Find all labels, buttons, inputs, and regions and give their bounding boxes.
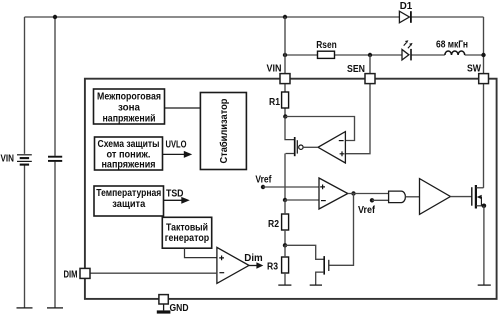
inductor L1 68uH bbox=[445, 51, 465, 55]
transistor Q1 sense PMOS bbox=[285, 117, 303, 201]
error amplifier U2 bbox=[319, 178, 348, 209]
wire R3 bottom to ground bbox=[284, 245, 286, 285]
svg-text:R3: R3 bbox=[267, 262, 278, 273]
arrow UVLO bbox=[163, 151, 193, 158]
pin SEN bbox=[365, 74, 375, 84]
block B UVLO protection bbox=[95, 137, 163, 170]
svg-text:Rsen: Rsen bbox=[316, 40, 337, 51]
svg-text:Стабилизатор: Стабилизатор bbox=[218, 99, 230, 164]
wire R2 to R3 bbox=[284, 200, 286, 245]
wire comparator output bbox=[249, 265, 257, 267]
node Q2 source bbox=[482, 204, 487, 209]
node divider mid bbox=[283, 198, 287, 202]
svg-text:Температурная: Температурная bbox=[96, 188, 161, 199]
svg-text:TSD: TSD bbox=[166, 188, 184, 199]
LED bbox=[402, 40, 413, 60]
svg-text:GND: GND bbox=[170, 303, 189, 314]
wire SW drop bbox=[483, 84, 485, 188]
wire input capacitor branch bbox=[54, 17, 56, 308]
transistor Q2 output NMOS bbox=[472, 185, 484, 209]
wire Rsen row bbox=[285, 54, 484, 56]
wire AND to buffer bbox=[405, 196, 419, 198]
svg-text:Dim: Dim bbox=[244, 253, 262, 264]
block D thermal protection bbox=[94, 186, 164, 216]
resistor R1 bbox=[282, 92, 289, 108]
wire error amp output down to Q3 gate bbox=[329, 194, 353, 266]
svg-text:защита: защита bbox=[112, 199, 145, 210]
svg-text:68 мкГн: 68 мкГн bbox=[436, 40, 468, 51]
wire Q2 source to ground bbox=[483, 206, 485, 285]
wire right drop from D1 to inductor row bbox=[483, 17, 485, 74]
ground bar battery bbox=[17, 307, 33, 309]
wire VIN rail bbox=[284, 17, 286, 117]
svg-text:D1: D1 bbox=[400, 1, 413, 12]
diode D1 bbox=[399, 11, 411, 23]
svg-text:UVLO: UVLO bbox=[166, 139, 187, 150]
wire R2R3 node to Q3 bbox=[285, 245, 324, 259]
svg-text:VIN: VIN bbox=[1, 154, 15, 165]
ground tick Q3 bbox=[310, 284, 322, 286]
node SEN junction bbox=[368, 53, 372, 57]
pin GND bbox=[159, 295, 168, 304]
node SW row right bbox=[481, 53, 485, 57]
wire top rail bbox=[25, 16, 484, 18]
resistor R2 bbox=[282, 214, 289, 230]
wire Vref to error amp plus bbox=[263, 186, 319, 188]
ground bar capacitor bbox=[47, 307, 63, 309]
block C stabilizer bbox=[200, 93, 246, 170]
wire clock to comparator bbox=[185, 248, 217, 257]
capacitor C1 bbox=[48, 157, 62, 161]
wire buffer to gate bbox=[450, 196, 471, 198]
svg-text:Межпороговая: Межпороговая bbox=[97, 92, 161, 103]
svg-text:SEN: SEN bbox=[347, 64, 365, 75]
ground bar GND bbox=[157, 310, 171, 313]
op-amp U1 current sense bbox=[303, 132, 345, 163]
node top VIN rail junction bbox=[283, 15, 287, 19]
wire Vref to AND input bbox=[372, 199, 389, 201]
arrow Dim bbox=[256, 262, 263, 269]
svg-text:зона: зона bbox=[118, 103, 140, 114]
buffer driver bbox=[420, 179, 451, 215]
block A Mezhporogovaya zona napryazheniy bbox=[94, 89, 165, 124]
block E clock generator bbox=[162, 217, 211, 248]
resistor R3 bbox=[282, 257, 289, 273]
AND gate bbox=[389, 191, 406, 203]
node error amp output bbox=[351, 191, 355, 195]
node R1 bottom bbox=[283, 114, 287, 118]
node R2 R3 junction bbox=[283, 243, 287, 247]
ground tick Q2 bbox=[478, 284, 491, 286]
svg-text:DIM: DIM bbox=[64, 270, 78, 281]
svg-text:Vref: Vref bbox=[255, 175, 272, 186]
node Rsen row left bbox=[283, 53, 287, 57]
node top capacitor junction bbox=[53, 15, 57, 19]
ground tick R3 bbox=[278, 284, 291, 286]
arrow TSD bbox=[164, 197, 190, 204]
wire divider to error amp minus bbox=[285, 199, 319, 201]
svg-text:R1: R1 bbox=[269, 97, 280, 108]
svg-text:Vref: Vref bbox=[358, 205, 376, 216]
transistor Q3 small NMOS bbox=[316, 256, 329, 285]
IC outline box bbox=[85, 79, 497, 299]
svg-text:напряжения: напряжения bbox=[102, 159, 156, 170]
resistor Rsen bbox=[318, 51, 335, 58]
svg-text:R2: R2 bbox=[268, 219, 279, 230]
pin SW bbox=[479, 74, 489, 84]
comparator U3 dim bbox=[217, 247, 249, 283]
node Vref left bbox=[261, 185, 265, 189]
pin VIN bbox=[280, 74, 290, 84]
svg-text:напряжений: напряжений bbox=[103, 114, 156, 125]
svg-text:генератор: генератор bbox=[165, 233, 210, 244]
wire feedback R1 to opamp minus bbox=[285, 117, 354, 141]
wire SEN drop bbox=[345, 55, 370, 154]
pin DIM bbox=[80, 268, 90, 278]
svg-text:SW: SW bbox=[467, 64, 481, 75]
wire error amp output to AND bbox=[348, 193, 389, 195]
svg-text:VIN: VIN bbox=[267, 64, 282, 75]
wire VIN source branch bbox=[24, 17, 26, 308]
wire DIM pin to comparator bbox=[90, 272, 217, 274]
wire block A to stabilizer bbox=[165, 107, 201, 109]
node Vref right bbox=[370, 198, 374, 202]
wire GND stub bbox=[163, 304, 165, 310]
battery VIN bbox=[17, 155, 32, 165]
